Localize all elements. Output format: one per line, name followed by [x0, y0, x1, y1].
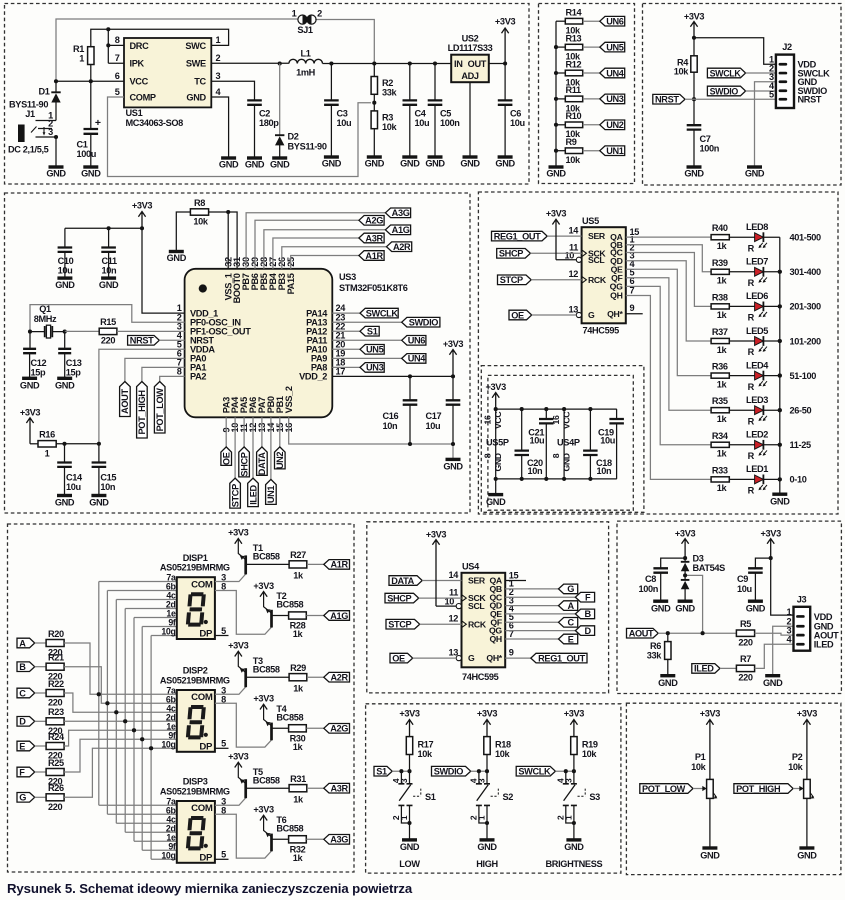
svg-text:OE: OE [392, 653, 405, 663]
svg-text:POT_HIGH: POT_HIGH [736, 784, 781, 794]
node SWDIO [707, 86, 745, 96]
ground for C13 [57, 377, 72, 380]
svg-text:GND: GND [46, 169, 66, 179]
svg-text:SHCP: SHCP [239, 452, 249, 476]
svg-text:R29: R29 [290, 663, 306, 673]
svg-text:R38: R38 [712, 292, 728, 302]
resistor R22 [46, 690, 64, 697]
svg-text:GND: GND [495, 158, 515, 168]
svg-text:15p: 15p [66, 367, 82, 377]
wire LED to cathode bus [763, 478, 779, 480]
svg-text:+3V3: +3V3 [486, 382, 507, 392]
svg-text:14: 14 [568, 226, 579, 236]
svg-text:R14: R14 [566, 8, 583, 18]
svg-text:DISP1: DISP1 [183, 553, 208, 563]
svg-text:NRST: NRST [798, 95, 822, 105]
node REG1_OUT flag [492, 231, 548, 241]
section box: segment shift register [367, 522, 609, 693]
node SWCLK mcu [360, 308, 398, 318]
node POT_HIGH flag [137, 382, 148, 439]
node A3G [324, 835, 350, 845]
wire base T1 [246, 563, 290, 565]
svg-text:+3V3: +3V3 [700, 709, 721, 719]
resistor R26 [46, 794, 64, 801]
node A2G [324, 724, 350, 734]
resistor R7 [736, 665, 754, 671]
svg-text:C3: C3 [337, 108, 348, 118]
svg-text:VCC: VCC [493, 411, 503, 429]
svg-text:1: 1 [79, 54, 84, 64]
switch S1 [401, 771, 409, 783]
wire REG1_OUT to SER [547, 235, 581, 237]
svg-text:STCP: STCP [230, 484, 240, 507]
svg-text:R26: R26 [48, 783, 64, 793]
capacitor C14 [64, 444, 66, 462]
pin 8 COM wire [215, 591, 272, 635]
ground for C1 [83, 165, 98, 168]
wire LED to cathode bus [763, 409, 779, 411]
svg-text:10u: 10u [510, 118, 525, 128]
node segment flag G [559, 584, 578, 594]
node UN1 flag [266, 479, 277, 504]
svg-text:3: 3 [477, 778, 487, 783]
svg-text:R40: R40 [712, 223, 728, 233]
svg-text:+3V3: +3V3 [564, 709, 585, 719]
resistor R39 [711, 269, 729, 274]
svg-text:COM: COM [191, 692, 213, 703]
wire base T6 [272, 838, 289, 840]
svg-text:AS05219BMRMG: AS05219BMRMG [160, 563, 230, 573]
wire US5 QC route [626, 253, 711, 307]
svg-text:UN2: UN2 [275, 452, 285, 470]
junction dots segment buses [97, 692, 101, 696]
wire to R23 [35, 720, 46, 722]
node STCP flag us4 [386, 619, 420, 629]
junction cathode bus [778, 477, 782, 481]
svg-text:US1: US1 [126, 108, 143, 118]
switch S2 [479, 771, 487, 783]
pin 5 DP stub [215, 635, 229, 637]
capacitor C21 [545, 409, 547, 418]
svg-text:5: 5 [221, 850, 226, 860]
svg-text:GND: GND [546, 169, 566, 179]
wire LED to cathode bus [763, 271, 779, 273]
node UN5 mcu [360, 345, 384, 355]
resistor R29 [289, 674, 307, 681]
connector J3 [794, 607, 811, 651]
junction [554, 45, 558, 49]
resistor R35 [711, 408, 729, 413]
wire crystal leads [30, 331, 65, 333]
svg-text:J2: J2 [782, 42, 792, 52]
wire base T5 [246, 787, 290, 789]
svg-text:+3V3: +3V3 [443, 339, 464, 349]
seven segment digit DISP2 [186, 705, 206, 739]
node UN6 [600, 16, 625, 26]
resistor R30 [289, 725, 307, 732]
svg-text:14: 14 [448, 570, 459, 580]
ground for C2 [247, 156, 262, 159]
clock mark SCK us4 [462, 595, 467, 602]
wire +3V3 to C8 [661, 558, 685, 567]
wire VSS_2 ground rail [289, 417, 453, 459]
ground for C5 [428, 155, 443, 158]
svg-text:DC 2,1/5,5: DC 2,1/5,5 [8, 145, 49, 155]
svg-text:GND: GND [89, 498, 109, 508]
svg-text:+3V3: +3V3 [253, 805, 274, 815]
svg-text:US4: US4 [462, 562, 480, 572]
wire POT_HIGH wiper [793, 788, 802, 790]
svg-text:C6: C6 [510, 108, 521, 118]
svg-text:SWDIO: SWDIO [710, 86, 739, 96]
led LED1 [755, 475, 764, 484]
svg-text:GND: GND [219, 159, 239, 169]
svg-text:VSS_2: VSS_2 [284, 386, 294, 413]
svg-text:10k: 10k [582, 749, 598, 759]
ground for US5P [488, 493, 503, 496]
svg-text:A3R: A3R [365, 233, 383, 243]
node REG1_OUT flag us4 [531, 653, 587, 663]
wire NRST to pin5 [685, 98, 776, 100]
wire to LED [729, 236, 754, 238]
svg-text:+3V3: +3V3 [399, 709, 420, 719]
svg-text:STCP: STCP [500, 275, 523, 285]
svg-text:GND: GND [55, 380, 75, 390]
junction segment bus [132, 728, 136, 732]
svg-text:BC858: BC858 [276, 824, 303, 834]
svg-text:GND: GND [322, 158, 342, 168]
svg-text:11-25: 11-25 [790, 440, 811, 450]
ground for C4 [402, 155, 417, 158]
wire pin1 SWC loop [91, 29, 229, 47]
wire net VIN top loop [56, 19, 374, 81]
wire R31 to flag [307, 787, 324, 789]
wire US5 QH route [626, 296, 711, 480]
wire R1 bottom [90, 65, 92, 82]
svg-text:A3G: A3G [330, 835, 348, 845]
svg-text:10u: 10u [337, 118, 352, 128]
resistor R37 [711, 338, 729, 343]
svg-text:10n: 10n [528, 466, 544, 476]
svg-text:GND: GND [425, 158, 445, 168]
transistor T4 BC858 [270, 723, 273, 741]
svg-text:SCL: SCL [588, 255, 605, 265]
capacitor C12 [29, 332, 31, 348]
svg-text:REG1_OUT: REG1_OUT [494, 231, 541, 241]
svg-text:J1: J1 [25, 109, 35, 119]
svg-text:D3: D3 [693, 554, 704, 564]
pin 3 COM wire [215, 574, 246, 582]
svg-text:R9: R9 [566, 137, 577, 147]
svg-text:GND: GND [245, 159, 265, 169]
node segment flag F [575, 592, 594, 602]
svg-text:LED8: LED8 [746, 222, 768, 232]
ground for D3 [678, 600, 693, 603]
wire SWDIO to pin4 [746, 90, 776, 92]
svg-text:RCK: RCK [588, 275, 607, 285]
svg-text:SER: SER [588, 231, 606, 241]
resistor R4 [693, 38, 695, 56]
svg-text:R36: R36 [712, 362, 728, 372]
svg-text:+3V3: +3V3 [228, 751, 249, 761]
ground for C8 [653, 600, 668, 603]
svg-text:9: 9 [509, 648, 514, 658]
svg-text:COM: COM [191, 579, 213, 590]
svg-text:AOUT: AOUT [629, 629, 654, 639]
section box: buttons [366, 704, 621, 873]
svg-text:GND: GND [797, 850, 817, 860]
wire Q to segment G [505, 588, 558, 590]
svg-text:SWCLK: SWCLK [366, 308, 399, 318]
svg-text:SWDIO: SWDIO [434, 767, 464, 777]
wire PB0 to UN1 [270, 417, 272, 479]
pin 8 COM wire [215, 703, 272, 747]
svg-text:US5P: US5P [486, 437, 509, 447]
ground for US2 [463, 155, 478, 158]
diode D3 BAT54S [684, 558, 686, 562]
node STCP flag [230, 478, 241, 508]
svg-text:GND: GND [486, 497, 506, 507]
node UN1 [600, 146, 625, 156]
svg-text:220: 220 [101, 336, 116, 346]
wire PA9 stub [332, 357, 401, 359]
svg-text:LED2: LED2 [746, 430, 768, 440]
svg-text:1: 1 [216, 35, 221, 45]
svg-text:GND: GND [770, 496, 790, 506]
resistor R5 [736, 630, 754, 636]
wire R17 to switch [409, 755, 411, 772]
node DATA flag [257, 447, 268, 476]
wire LED to cathode bus [763, 340, 779, 342]
wire D3 mid tap to AOUT [685, 575, 703, 633]
ground for C6 [498, 155, 513, 158]
svg-text:+3V3: +3V3 [546, 209, 567, 219]
svg-text:UN1: UN1 [606, 146, 624, 156]
node A2R [324, 672, 350, 682]
svg-text:BYS11-90: BYS11-90 [9, 100, 48, 110]
junction segment bus [97, 692, 101, 696]
svg-text:R13: R13 [566, 33, 582, 43]
wire PA7 to DATA [261, 417, 263, 447]
node S1 switch flag [374, 766, 392, 776]
svg-text:US3: US3 [339, 272, 356, 282]
svg-text:+3V3: +3V3 [228, 640, 249, 650]
svg-text:P1: P1 [695, 752, 706, 762]
node segment D [17, 717, 35, 727]
svg-text:OE: OE [511, 310, 524, 320]
svg-text:1k: 1k [717, 345, 728, 355]
wire segment bus taps DISP3 [99, 804, 177, 806]
wire to R25 [35, 771, 46, 773]
capacitor C13 [64, 332, 66, 348]
wire Q to segment F [505, 596, 575, 598]
svg-text:R: R [748, 451, 755, 461]
svg-text:GND: GND [20, 380, 40, 390]
node UN4 mcu [402, 354, 426, 364]
svg-text:10k: 10k [788, 762, 804, 772]
svg-text:LOW: LOW [399, 859, 420, 869]
svg-text:RCK: RCK [468, 619, 487, 629]
svg-text:DRC: DRC [130, 41, 150, 51]
wire P1 to ground [709, 798, 711, 848]
wire US5 QD route [626, 261, 711, 341]
wire to R24 [35, 745, 46, 747]
node SWDIO mcu [402, 317, 440, 327]
svg-text:A: A [568, 601, 575, 611]
svg-text:LED3: LED3 [746, 395, 768, 405]
potentiometer P1 10k [707, 779, 714, 798]
wire VDD_1 net [65, 228, 185, 313]
svg-text:SER: SER [468, 576, 486, 586]
svg-text:10n: 10n [597, 466, 613, 476]
resistor R10 [556, 124, 565, 126]
node segment C [17, 688, 35, 698]
svg-text:STCP: STCP [388, 620, 411, 630]
inductor L1 1mH [289, 59, 323, 63]
svg-text:ILED: ILED [694, 664, 714, 674]
node segment flag C [559, 618, 578, 628]
junction segment bus [105, 701, 109, 705]
svg-text:UN5: UN5 [606, 42, 624, 52]
svg-text:R7: R7 [740, 654, 751, 664]
svg-text:US2: US2 [462, 34, 479, 44]
svg-text:J3: J3 [797, 594, 807, 604]
shift register US5 74HC595 body [582, 227, 626, 323]
svg-text:+3V3: +3V3 [228, 528, 249, 538]
led LED2 [755, 440, 764, 449]
svg-text:VDD_2: VDD_2 [299, 372, 327, 382]
svg-text:E: E [568, 634, 574, 644]
ground for J3 pin2 [765, 674, 780, 677]
svg-text:IPK: IPK [130, 59, 145, 69]
ground for D2 [272, 156, 287, 159]
op-amp US1 MC34063-SO8 body [124, 38, 211, 107]
wire GND rail us5p [496, 478, 617, 480]
connector J1 DC jack [18, 125, 25, 143]
svg-text:UN4: UN4 [408, 354, 427, 364]
node A2R [387, 242, 412, 252]
svg-text:C: C [568, 618, 575, 628]
capacitor C20 [521, 409, 523, 450]
node UN3 [600, 94, 625, 104]
svg-text:10g: 10g [161, 851, 175, 861]
node segment F [17, 767, 35, 777]
svg-text:R12: R12 [566, 59, 582, 69]
wire OE to G bubble [532, 314, 577, 316]
wire R5 to J3 pin3 [755, 633, 794, 635]
svg-text:QH*: QH* [486, 653, 502, 663]
pin 3 COM wire [215, 687, 246, 695]
resistor R18 [484, 737, 490, 755]
svg-text:100u: 100u [77, 149, 97, 159]
svg-text:D2: D2 [288, 132, 299, 142]
wire base T2 [272, 615, 289, 617]
svg-text:AOUT: AOUT [120, 389, 130, 414]
svg-text:C17: C17 [426, 411, 442, 421]
svg-text:GND: GND [562, 453, 572, 471]
section box: shift register power outer [481, 366, 644, 513]
svg-text:DISP2: DISP2 [183, 666, 208, 676]
svg-text:UN6: UN6 [408, 336, 426, 346]
svg-text:1k: 1k [293, 571, 304, 581]
wire PB6 to A2G [255, 220, 359, 268]
svg-text:5: 5 [221, 739, 226, 749]
svg-text:US5: US5 [582, 216, 599, 226]
svg-text:COM: COM [191, 803, 213, 814]
svg-text:PA2: PA2 [190, 372, 206, 382]
svg-text:1k: 1k [717, 310, 728, 320]
svg-text:R10: R10 [566, 111, 582, 121]
wire R23 to segment bus [64, 720, 177, 722]
svg-text:AS05219BMRMG: AS05219BMRMG [160, 787, 230, 797]
svg-text:C4: C4 [415, 108, 427, 118]
svg-text:ILED: ILED [814, 640, 834, 650]
node S1 mcu [360, 326, 379, 336]
wire SHCP to SCK us4 [419, 597, 462, 599]
capacitor C1 [90, 81, 92, 128]
capacitor C3 [330, 64, 332, 100]
solder jumper SJ1 [303, 15, 308, 24]
svg-text:C5: C5 [440, 108, 451, 118]
node A3G [385, 208, 410, 218]
wire OE to G us4 [413, 657, 457, 659]
regulator US2 LD1117S33 [451, 55, 489, 82]
svg-text:1k: 1k [717, 276, 728, 286]
wire LED to cathode bus [763, 305, 779, 307]
svg-text:R21: R21 [48, 653, 64, 663]
svg-text:DP: DP [199, 853, 213, 864]
svg-text:UN3: UN3 [606, 94, 624, 104]
ground for S2 [480, 838, 495, 841]
capacitor C11 [108, 228, 110, 246]
svg-text:IN: IN [454, 59, 463, 69]
node ILED flag j3 [692, 664, 720, 674]
svg-text:10n: 10n [102, 266, 118, 276]
section box: shift register power inner [488, 375, 633, 510]
svg-text:R: R [748, 278, 755, 288]
svg-text:BC858: BC858 [276, 600, 303, 610]
svg-text:R: R [748, 416, 755, 426]
svg-text:DISP3: DISP3 [183, 777, 208, 787]
svg-text:10k: 10k [566, 155, 582, 165]
section box: UN divider ladder [539, 4, 635, 184]
wire US2 ADJ to ground [469, 82, 471, 157]
wire to LED [729, 478, 754, 480]
svg-text:8MHz: 8MHz [34, 314, 57, 324]
svg-text:10g: 10g [161, 740, 175, 750]
svg-text:NRST: NRST [655, 95, 679, 105]
svg-text:C9: C9 [737, 574, 748, 584]
mcu US3 STM32F051K8T6 body [185, 269, 333, 418]
svg-text:8: 8 [221, 805, 226, 815]
capacitor C17 [452, 376, 454, 399]
svg-text:7: 7 [115, 53, 120, 63]
svg-text:A2R: A2R [331, 673, 349, 683]
resistor R28 [289, 612, 307, 619]
junction [554, 123, 558, 127]
svg-text:D: D [19, 717, 26, 727]
svg-text:C16: C16 [383, 411, 399, 421]
svg-text:220: 220 [738, 673, 753, 683]
svg-text:1: 1 [787, 607, 792, 617]
ground for C15 [91, 494, 106, 497]
resistor R11 [556, 98, 565, 100]
svg-text:A1G: A1G [330, 611, 348, 621]
wire R32 to flag [306, 838, 323, 840]
wire R27 to flag [307, 563, 324, 565]
svg-text:5: 5 [221, 626, 226, 636]
svg-text:LED4: LED4 [746, 360, 769, 370]
